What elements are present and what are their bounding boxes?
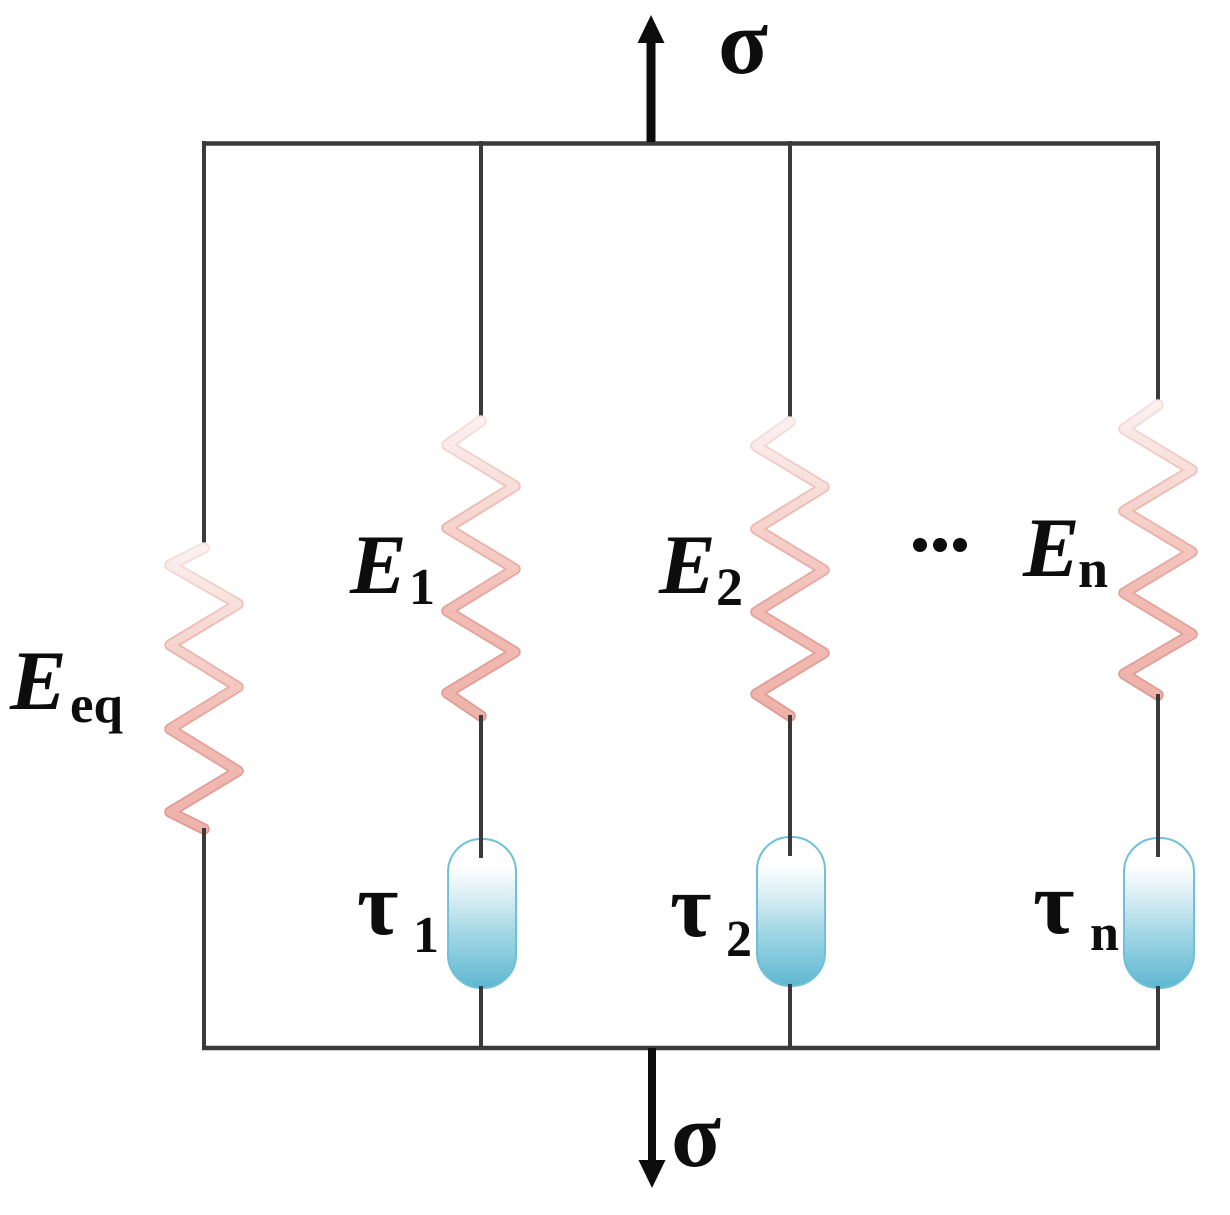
svg-text:E: E <box>1022 501 1080 595</box>
wire: branch 1 middle <box>479 715 483 858</box>
label tau_2 <box>670 857 752 968</box>
svg-text:1: 1 <box>409 559 435 616</box>
svg-text:σ: σ <box>671 1084 721 1186</box>
wire: left branch lower <box>202 828 206 1048</box>
wire: branch 2 lower <box>788 984 792 1048</box>
svg-text:n: n <box>1090 905 1119 962</box>
svg-text:2: 2 <box>716 557 743 617</box>
svg-text:1: 1 <box>413 907 439 964</box>
svg-text:τ: τ <box>357 855 398 954</box>
wire: top rail <box>202 141 1160 146</box>
wire: branch n upper <box>1156 141 1160 406</box>
spring E_1 <box>447 421 515 716</box>
label E_n <box>1022 501 1108 599</box>
svg-text:2: 2 <box>726 911 752 968</box>
spring E_n <box>1124 405 1192 695</box>
svg-text:E: E <box>349 518 407 612</box>
label tau_n <box>1033 854 1119 962</box>
label tau_1 <box>357 855 439 964</box>
svg-text:E: E <box>658 518 716 612</box>
spring E_eq <box>170 548 238 829</box>
ellipsis dots <box>913 538 967 552</box>
label sigma top <box>718 0 768 93</box>
stress arrow bottom (sigma) <box>639 1048 666 1188</box>
spring E_2 <box>756 422 824 716</box>
dashpot tau_2 <box>757 837 825 986</box>
wire: branch n lower <box>1156 986 1160 1048</box>
label E_2 <box>658 518 743 617</box>
label E_1 <box>349 518 435 616</box>
dashpot tau_1 <box>448 839 516 988</box>
wire: branch 2 middle <box>788 715 792 856</box>
svg-text:E: E <box>9 634 67 728</box>
svg-text:τ: τ <box>1033 854 1074 953</box>
wire: branch n middle <box>1156 694 1160 857</box>
wire: left branch upper <box>202 141 206 549</box>
dashpot tau_n <box>1124 838 1194 988</box>
stress arrow top (sigma) <box>638 15 665 142</box>
label sigma bottom <box>671 1084 721 1186</box>
svg-text:τ: τ <box>670 857 711 956</box>
wire: bottom rail <box>202 1046 1160 1051</box>
svg-text:n: n <box>1078 539 1108 599</box>
wire: branch 2 upper <box>788 141 792 423</box>
wire: branch 1 lower <box>479 986 483 1048</box>
svg-text:σ: σ <box>718 0 768 93</box>
wire: branch 1 upper <box>479 141 483 422</box>
label E_eq <box>9 634 123 734</box>
svg-text:eq: eq <box>70 676 123 734</box>
